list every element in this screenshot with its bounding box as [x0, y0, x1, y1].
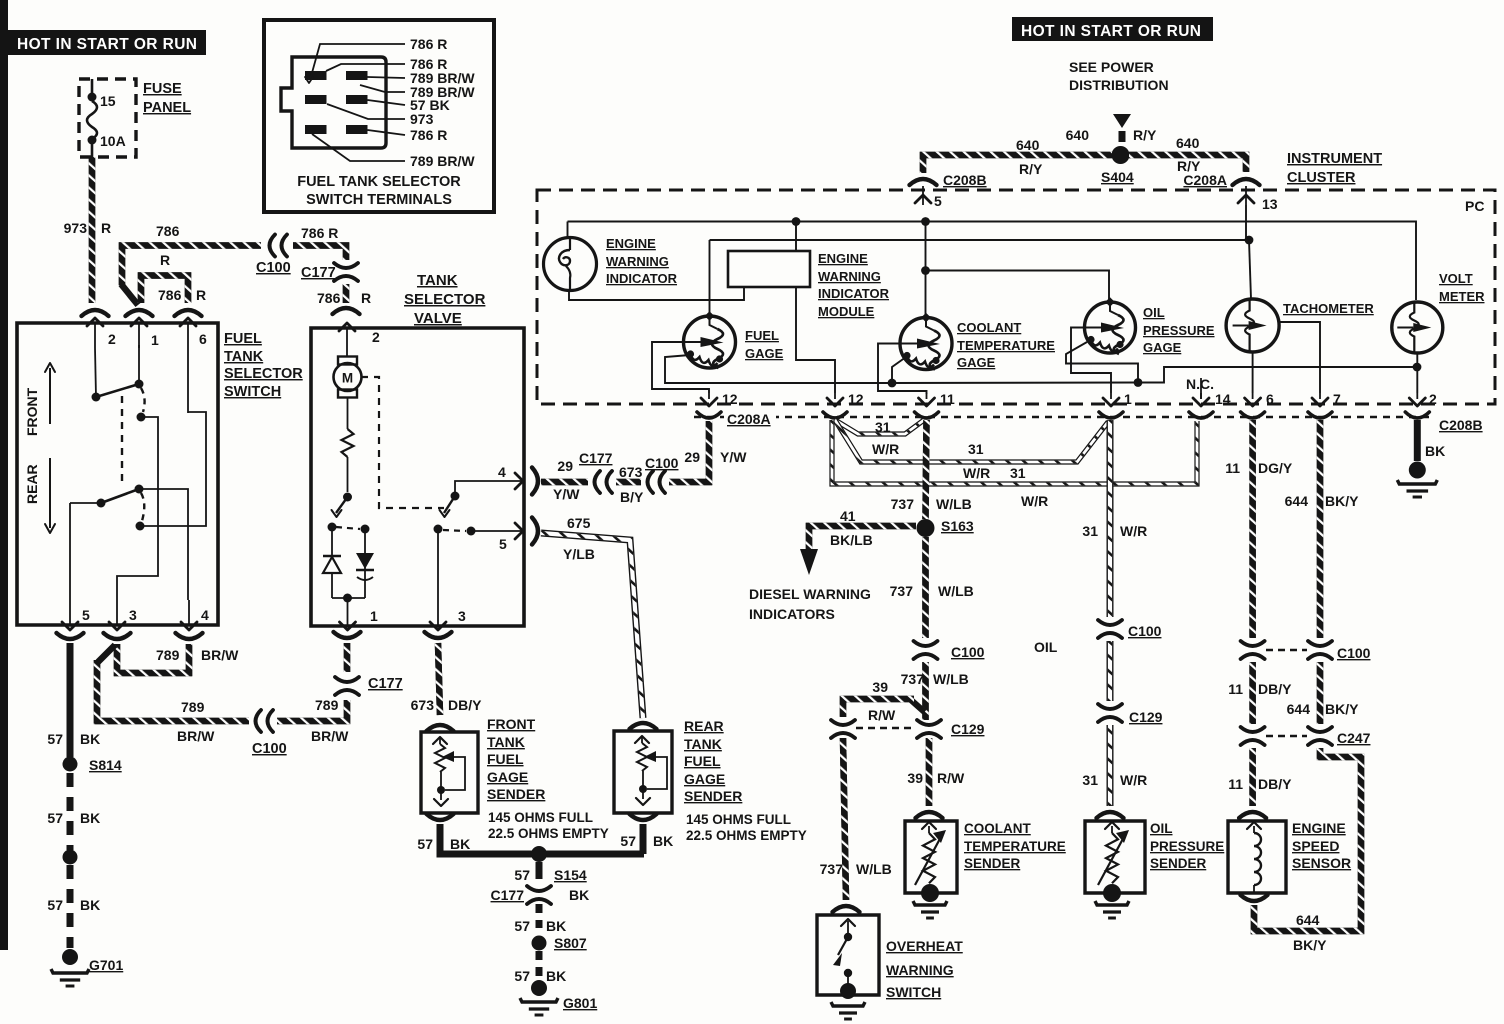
- svg-text:737: 737: [901, 671, 925, 687]
- svg-text:640: 640: [1016, 137, 1040, 153]
- terminal at switch pin 1: [126, 310, 153, 316]
- switch pin 6 arrow: [187, 322, 189, 348]
- svg-text:C129: C129: [1129, 709, 1163, 725]
- svg-text:DB/Y: DB/Y: [1258, 776, 1292, 792]
- valve pin 5 arrow: [515, 523, 523, 539]
- svg-text:SENDER: SENDER: [1150, 856, 1207, 871]
- svg-text:29: 29: [684, 449, 700, 465]
- terminal at valve pin 5 (harness side): [532, 518, 538, 545]
- tachometer low to pin 6: [1252, 352, 1254, 393]
- svg-text:GAGE: GAGE: [957, 355, 996, 370]
- svg-text:INDICATORS: INDICATORS: [749, 606, 835, 622]
- svg-text:644: 644: [1287, 701, 1311, 717]
- svg-text:METER: METER: [1439, 289, 1485, 304]
- svg-text:57: 57: [47, 810, 63, 826]
- svg-text:SELECTOR: SELECTOR: [224, 366, 303, 382]
- svg-text:TANK: TANK: [684, 736, 722, 752]
- svg-text:REAR: REAR: [684, 718, 724, 734]
- svg-text:SWITCH TERMINALS: SWITCH TERMINALS: [306, 192, 452, 208]
- REAR arrow and label: [49, 458, 51, 528]
- wire 786 R from switch to C100/C177 and valve pin 2: [122, 246, 261, 286]
- svg-text:2: 2: [372, 329, 380, 345]
- svg-text:R: R: [196, 287, 206, 303]
- svg-text:644: 644: [1296, 912, 1320, 928]
- svg-text:SELECTOR: SELECTOR: [404, 291, 486, 308]
- svg-text:TEMPERATURE: TEMPERATURE: [964, 839, 1066, 854]
- terminal below front sender: [427, 814, 454, 820]
- fuel gage: [709, 240, 711, 313]
- svg-text:N.C.: N.C.: [1186, 376, 1214, 392]
- svg-text:BK: BK: [80, 810, 100, 826]
- svg-text:ENGINE: ENGINE: [818, 251, 868, 266]
- svg-text:C100: C100: [645, 455, 679, 471]
- wire 673 DB/Y: [438, 643, 440, 715]
- svg-text:W/R: W/R: [963, 465, 990, 481]
- wire 57 BK dashed: [67, 773, 74, 850]
- svg-text:1: 1: [151, 332, 159, 348]
- svg-text:FUSE: FUSE: [143, 81, 182, 97]
- svg-text:640: 640: [1176, 135, 1200, 151]
- svg-text:R/W: R/W: [868, 707, 896, 723]
- svg-text:W/R: W/R: [872, 441, 899, 457]
- wire 973 R: [89, 157, 96, 303]
- engine warning indicator module box: [728, 251, 810, 287]
- svg-text:W/R: W/R: [1021, 493, 1048, 509]
- svg-text:DG/Y: DG/Y: [1258, 460, 1293, 476]
- connector C100 (786 R): [270, 235, 276, 257]
- svg-text:MODULE: MODULE: [818, 304, 875, 319]
- switch lower pole contacts: [69, 503, 71, 600]
- svg-text:FUEL: FUEL: [224, 331, 262, 347]
- svg-text:REAR: REAR: [24, 464, 40, 504]
- svg-text:BR/W: BR/W: [311, 728, 349, 744]
- svg-text:786: 786: [156, 223, 180, 239]
- tank selector valve box: [311, 328, 524, 626]
- svg-text:57: 57: [514, 918, 530, 934]
- oil gage low side to ground bus: [1066, 342, 1138, 383]
- splice: [63, 850, 78, 865]
- svg-text:ENGINE: ENGINE: [606, 236, 656, 251]
- terminal above overheat switch: [833, 906, 860, 912]
- svg-text:789: 789: [315, 697, 339, 713]
- svg-text:SENDER: SENDER: [487, 786, 545, 802]
- oil pressure sender box: [1085, 821, 1145, 893]
- svg-text:W/R: W/R: [1120, 772, 1147, 788]
- switch pin 1 arrow: [138, 322, 140, 348]
- svg-text:12: 12: [848, 391, 864, 407]
- switch pin 5 arrow: [69, 600, 71, 626]
- valve pin 2 arrow: [346, 327, 348, 356]
- wire 31 W/R pin12 to pin1: [835, 420, 1108, 462]
- connector C129: [831, 720, 855, 725]
- svg-text:GAGE: GAGE: [1143, 340, 1182, 355]
- wire 39 R/W branch: [911, 700, 925, 712]
- wire 644 BK/Y: [1317, 662, 1324, 724]
- svg-text:5: 5: [499, 536, 507, 552]
- svg-text:57: 57: [620, 833, 636, 849]
- wire 644 BK/Y loop from C247 to sensor: [1254, 748, 1361, 931]
- splice S154: [531, 846, 547, 862]
- svg-text:FRONT: FRONT: [24, 387, 40, 436]
- svg-text:C177: C177: [368, 676, 403, 692]
- fuse F (15, 10A): [91, 79, 94, 93]
- svg-text:S154: S154: [554, 867, 587, 883]
- volt meter low to pin 2: [1416, 353, 1418, 393]
- svg-text:BK: BK: [569, 887, 589, 903]
- svg-text:R: R: [361, 290, 371, 306]
- svg-text:C100: C100: [951, 644, 985, 660]
- svg-text:10A: 10A: [100, 133, 126, 149]
- connector C177 (786 R): [334, 263, 358, 268]
- svg-text:WARNING: WARNING: [818, 269, 881, 284]
- wire 31 W/R from pin 1: [1107, 420, 1114, 617]
- svg-text:PC: PC: [1465, 198, 1484, 214]
- svg-text:R: R: [101, 220, 111, 236]
- svg-text:57: 57: [417, 836, 433, 852]
- wire 11 DB/Y to engine speed sensor: [1249, 748, 1256, 806]
- svg-text:644: 644: [1285, 493, 1309, 509]
- svg-text:SWITCH: SWITCH: [224, 384, 281, 400]
- svg-text:S814: S814: [89, 757, 122, 773]
- terminal leader lines: [310, 44, 405, 80]
- svg-text:1: 1: [370, 608, 378, 624]
- svg-text:INSTRUMENT: INSTRUMENT: [1287, 151, 1382, 167]
- svg-text:31: 31: [1082, 523, 1098, 539]
- terminal below switch pin 5: [57, 633, 84, 639]
- wire 29 Y/W / 673 B/Y: [541, 479, 588, 486]
- svg-text:Y/W: Y/W: [720, 449, 747, 465]
- svg-text:BK: BK: [450, 836, 470, 852]
- svg-text:M: M: [342, 371, 353, 386]
- terminal below switch pin 3: [104, 633, 131, 639]
- valve dashed link from motor: [361, 377, 444, 508]
- terminal blades: [305, 71, 327, 80]
- svg-text:DIESEL WARNING: DIESEL WARNING: [749, 586, 871, 602]
- svg-text:737: 737: [891, 496, 915, 512]
- terminal above rear sender: [630, 723, 657, 729]
- svg-text:39: 39: [872, 679, 888, 695]
- svg-text:BK: BK: [653, 833, 673, 849]
- svg-text:G701: G701: [89, 957, 123, 973]
- svg-text:673: 673: [411, 697, 435, 713]
- valve diode branch (right): [364, 529, 366, 598]
- valve diode branch (left): [331, 552, 333, 598]
- svg-text:57: 57: [47, 897, 63, 913]
- svg-text:BK: BK: [546, 918, 566, 934]
- svg-text:C100: C100: [256, 260, 291, 276]
- oil gage pointer wire to pin 1: [1071, 328, 1111, 394]
- svg-text:786 R: 786 R: [301, 225, 338, 241]
- svg-text:29: 29: [557, 458, 573, 474]
- banner HOT IN START OR RUN (right): [1012, 17, 1213, 41]
- svg-text:14: 14: [1215, 391, 1231, 407]
- svg-text:FUEL: FUEL: [745, 328, 779, 343]
- connector body outline: [281, 57, 386, 148]
- wire 675 Y/LB: [541, 533, 643, 718]
- wire 41 BK/LB to diesel warning indicators: [809, 526, 916, 549]
- svg-text:DISTRIBUTION: DISTRIBUTION: [1069, 77, 1169, 93]
- svg-text:57: 57: [47, 731, 63, 747]
- connector C208A/C208B dotted body line: [694, 416, 1434, 419]
- wire 737 W/LB to overheat switch: [843, 738, 846, 900]
- svg-text:C247: C247: [1337, 730, 1371, 746]
- wire 31 W/R pin12 to pin11: [835, 420, 924, 434]
- svg-text:OVERHEAT: OVERHEAT: [886, 938, 963, 954]
- svg-text:4: 4: [498, 464, 506, 480]
- svg-text:SENDER: SENDER: [684, 788, 742, 804]
- svg-text:COOLANT: COOLANT: [964, 821, 1031, 836]
- cluster bus 1: [568, 222, 1417, 301]
- ground bus across cluster: [891, 382, 1138, 385]
- svg-text:BK/Y: BK/Y: [1325, 493, 1359, 509]
- terminal above engine speed sensor: [1239, 812, 1266, 818]
- svg-text:31: 31: [875, 419, 891, 435]
- junction dots on bus 1: [792, 217, 801, 226]
- coolant gage low side to ground bus: [892, 357, 906, 383]
- svg-text:R/Y: R/Y: [1019, 161, 1043, 177]
- left page border bar: [0, 0, 8, 950]
- svg-text:R: R: [160, 252, 170, 268]
- wire 789 BR/W jumper pin3-pin4: [117, 644, 189, 673]
- svg-text:973: 973: [410, 111, 434, 127]
- svg-text:GAGE: GAGE: [487, 769, 528, 785]
- terminal C208B pin 5: [910, 179, 937, 185]
- valve bottom rail to pin 1: [332, 597, 365, 599]
- svg-text:145 OHMS FULL: 145 OHMS FULL: [488, 810, 593, 825]
- ground G801: [531, 980, 547, 996]
- connector C100 (DG/Y & BK/Y): [1241, 641, 1265, 646]
- svg-text:PANEL: PANEL: [143, 100, 191, 116]
- svg-text:VALVE: VALVE: [414, 310, 462, 327]
- switch upper pole contacts: [95, 348, 96, 397]
- svg-text:FUEL TANK SELECTOR: FUEL TANK SELECTOR: [297, 174, 461, 190]
- connector C100 (789): [256, 710, 262, 732]
- svg-text:SENDER: SENDER: [964, 856, 1021, 871]
- feed to coolant gage and oil gage: [925, 222, 927, 318]
- svg-text:C208B: C208B: [943, 172, 987, 188]
- svg-text:BK: BK: [546, 968, 566, 984]
- svg-text:640: 640: [1066, 127, 1090, 143]
- svg-text:C100: C100: [1337, 645, 1371, 661]
- fuel gage pointer wire to pin 12: [652, 342, 709, 393]
- fuel tank selector switch box: [17, 323, 218, 625]
- svg-text:R/Y: R/Y: [1133, 127, 1157, 143]
- svg-text:W/LB: W/LB: [936, 496, 972, 512]
- svg-text:5: 5: [934, 193, 942, 209]
- wire 39 R/W to coolant sender: [926, 738, 933, 806]
- svg-text:BK: BK: [80, 897, 100, 913]
- svg-text:SENSOR: SENSOR: [1292, 855, 1351, 871]
- svg-text:G801: G801: [563, 995, 597, 1011]
- tachometer: [1226, 299, 1279, 352]
- svg-text:6: 6: [199, 331, 207, 347]
- svg-text:HOT IN START OR RUN: HOT IN START OR RUN: [17, 36, 197, 53]
- svg-text:DB/Y: DB/Y: [448, 697, 482, 713]
- svg-text:7: 7: [1333, 391, 1341, 407]
- connector C100 (737): [914, 641, 938, 646]
- svg-text:41: 41: [840, 508, 856, 524]
- svg-text:SEE POWER: SEE POWER: [1069, 59, 1154, 75]
- valve pin 3 arrow: [437, 600, 439, 626]
- wire 57 BK below S154: [536, 862, 543, 879]
- terminal below rear sender: [630, 814, 657, 820]
- splice S814: [63, 757, 78, 772]
- svg-text:737: 737: [890, 583, 914, 599]
- svg-text:2: 2: [108, 331, 116, 347]
- svg-text:BR/W: BR/W: [177, 728, 215, 744]
- svg-text:SPEED: SPEED: [1292, 838, 1339, 854]
- engine warning indicator lamp: [567, 222, 569, 239]
- svg-text:S163: S163: [941, 518, 974, 534]
- svg-text:OIL: OIL: [1150, 821, 1173, 836]
- svg-text:11: 11: [1228, 681, 1243, 697]
- svg-text:973: 973: [64, 220, 88, 236]
- svg-text:4: 4: [201, 607, 209, 623]
- svg-text:C100: C100: [252, 741, 287, 757]
- connector C129 (31 W/R): [1098, 704, 1122, 709]
- svg-text:11: 11: [1225, 460, 1240, 476]
- fuel tank selector switch terminals outer box: [264, 20, 494, 212]
- valve right switch: [451, 492, 460, 501]
- terminal at switch pin 6: [175, 310, 202, 316]
- svg-text:HOT IN START OR RUN: HOT IN START OR RUN: [1021, 23, 1201, 40]
- svg-text:WARNING: WARNING: [606, 254, 669, 269]
- cluster bus 2 from pin 13: [1245, 205, 1247, 240]
- wire 644 BK/Y from pin 7: [1317, 420, 1324, 638]
- coolant temperature gage: [900, 318, 952, 370]
- svg-text:S807: S807: [554, 935, 587, 951]
- wire 57 BK front sender to splice bus: [440, 824, 644, 854]
- svg-text:TEMPERATURE: TEMPERATURE: [957, 338, 1055, 353]
- wire 57 BK: [67, 643, 74, 757]
- wire 57 BK rear sender: [640, 824, 647, 854]
- svg-text:C100: C100: [1128, 623, 1162, 639]
- module output to pin 12: [796, 287, 835, 393]
- wire 31 W/R pin12 to pin14: [832, 420, 1197, 484]
- svg-text:CLUSTER: CLUSTER: [1287, 170, 1356, 186]
- svg-text:BK/Y: BK/Y: [1293, 937, 1327, 953]
- valve motor M: [338, 357, 357, 365]
- connector C177 (29/673): [595, 471, 601, 493]
- svg-text:789: 789: [156, 647, 180, 663]
- svg-text:Y/LB: Y/LB: [563, 546, 595, 562]
- svg-text:BK/LB: BK/LB: [830, 532, 873, 548]
- svg-text:31: 31: [968, 441, 984, 457]
- svg-text:FRONT: FRONT: [487, 716, 536, 732]
- svg-text:INDICATOR: INDICATOR: [606, 271, 678, 286]
- terminal at switch pin 2: [82, 310, 109, 316]
- terminal below switch pin 4: [176, 633, 203, 639]
- wire 640 R/Y (left): [923, 155, 1112, 173]
- svg-text:673: 673: [619, 464, 643, 480]
- svg-text:2: 2: [1429, 391, 1437, 407]
- terminal above coolant sender: [916, 812, 943, 818]
- svg-text:W/R: W/R: [1120, 523, 1147, 539]
- cluster pin arrows (bottom edge): [708, 393, 710, 399]
- svg-text:TANK: TANK: [417, 272, 458, 289]
- volt meter: [1392, 302, 1443, 353]
- terminal above oil pressure sender: [1097, 812, 1124, 818]
- terminal above front sender: [427, 725, 454, 731]
- valve pin 4 arrow: [515, 473, 523, 489]
- svg-text:Y/W: Y/W: [553, 486, 580, 502]
- svg-text:OIL: OIL: [1143, 305, 1165, 320]
- svg-text:SWITCH: SWITCH: [886, 984, 941, 1000]
- svg-text:786: 786: [158, 287, 182, 303]
- power feed arrow: [1113, 114, 1131, 128]
- svg-text:S404: S404: [1101, 169, 1134, 185]
- svg-text:PRESSURE: PRESSURE: [1143, 323, 1215, 338]
- svg-text:B/Y: B/Y: [620, 489, 644, 505]
- ground at C208B: [1409, 462, 1426, 479]
- valve left switch: [343, 493, 352, 502]
- svg-text:145 OHMS FULL: 145 OHMS FULL: [686, 812, 791, 827]
- valve resistor: [347, 398, 349, 430]
- wire 786 R jumper switch pin 1 to pin 6: [141, 276, 188, 304]
- svg-text:31: 31: [1010, 465, 1026, 481]
- svg-text:DB/Y: DB/Y: [1258, 681, 1292, 697]
- splice S163: [917, 519, 935, 537]
- svg-text:12: 12: [722, 391, 738, 407]
- svg-text:22.5 OHMS EMPTY: 22.5 OHMS EMPTY: [488, 826, 609, 841]
- svg-text:789 BR/W: 789 BR/W: [410, 153, 475, 169]
- fuel gage low side to ground bus: [665, 355, 891, 383]
- svg-text:TANK: TANK: [487, 734, 525, 750]
- wire BK from pin 2: [1414, 420, 1421, 461]
- svg-text:GAGE: GAGE: [684, 771, 725, 787]
- svg-text:BK/Y: BK/Y: [1325, 701, 1359, 717]
- svg-text:TANK: TANK: [224, 349, 264, 365]
- svg-text:39: 39: [907, 770, 923, 786]
- svg-text:786: 786: [317, 290, 341, 306]
- svg-text:789: 789: [181, 699, 205, 715]
- oil pressure gage: [1085, 302, 1136, 353]
- terminal at valve pin 2: [333, 308, 360, 314]
- svg-text:GAGE: GAGE: [745, 346, 784, 361]
- splice S807: [532, 936, 547, 951]
- instrument cluster dashed border: [537, 190, 1495, 404]
- svg-text:COOLANT: COOLANT: [957, 320, 1021, 335]
- svg-text:786 R: 786 R: [410, 127, 447, 143]
- connector C177 (57 BK): [527, 886, 551, 891]
- connector C100 (673/29): [648, 471, 654, 493]
- terminal C208A pin 13: [1233, 179, 1260, 185]
- FRONT arrow and label: [49, 368, 51, 424]
- svg-text:5: 5: [82, 607, 90, 623]
- switch mechanical link (dashed): [121, 396, 123, 486]
- svg-text:R/W: R/W: [937, 770, 965, 786]
- svg-text:BK: BK: [80, 731, 100, 747]
- rear tank fuel gage sender box: [614, 731, 672, 813]
- wire 737 W/LB from pin 11: [926, 420, 927, 519]
- svg-text:22.5 OHMS EMPTY: 22.5 OHMS EMPTY: [686, 828, 807, 843]
- connector C100 (31 W/R): [1098, 620, 1122, 625]
- svg-text:3: 3: [129, 607, 137, 623]
- terminal below valve pin 3: [425, 632, 452, 638]
- svg-text:1: 1: [1124, 391, 1132, 407]
- svg-text:15: 15: [100, 93, 116, 109]
- svg-text:WARNING: WARNING: [886, 962, 954, 978]
- ground G701: [62, 949, 78, 965]
- wire 11 DB/Y: [1249, 662, 1256, 724]
- splice S404: [1112, 146, 1130, 164]
- svg-text:11: 11: [940, 391, 955, 407]
- engine speed sensor box: [1228, 821, 1286, 893]
- terminal below engine speed sensor: [1241, 895, 1268, 901]
- svg-text:TACHOMETER: TACHOMETER: [1283, 301, 1374, 316]
- svg-text:31: 31: [1082, 772, 1098, 788]
- wire 11 DG/Y from pin 6: [1249, 420, 1256, 638]
